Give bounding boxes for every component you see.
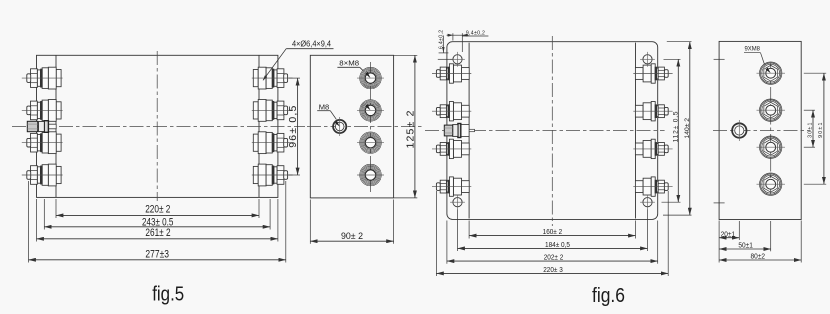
svg-text:8×M8: 8×M8 <box>339 59 359 68</box>
svg-text:4×Ø6,4×9,4: 4×Ø6,4×9,4 <box>292 39 331 48</box>
svg-text:50±1: 50±1 <box>738 241 753 250</box>
svg-text:90±1: 90±1 <box>818 123 824 138</box>
svg-text:220± 2: 220± 2 <box>145 204 170 216</box>
svg-text:30±1: 30±1 <box>807 123 813 138</box>
svg-text:277±3: 277±3 <box>145 248 169 260</box>
svg-text:202± 2: 202± 2 <box>544 253 564 262</box>
svg-text:M8: M8 <box>319 102 330 111</box>
svg-text:fig.6: fig.6 <box>592 285 625 307</box>
svg-text:fig.5: fig.5 <box>152 284 184 306</box>
svg-text:9XM8: 9XM8 <box>744 46 760 53</box>
svg-text:140± 2: 140± 2 <box>684 118 691 139</box>
svg-text:112± 0,5: 112± 0,5 <box>673 111 680 142</box>
svg-text:261± 2: 261± 2 <box>145 227 170 239</box>
svg-text:20±1: 20±1 <box>721 229 736 238</box>
svg-text:96± 0,5: 96± 0,5 <box>287 106 299 148</box>
svg-text:90± 2: 90± 2 <box>341 231 363 242</box>
svg-text:184± 0,5: 184± 0,5 <box>545 240 570 249</box>
svg-text:6,4±0,2: 6,4±0,2 <box>438 30 444 49</box>
svg-text:220± 3: 220± 3 <box>543 265 563 274</box>
svg-text:125± 2: 125± 2 <box>405 110 417 148</box>
svg-text:80±2: 80±2 <box>751 252 766 261</box>
svg-text:160± 2: 160± 2 <box>543 227 563 236</box>
svg-text:9,4±0,2: 9,4±0,2 <box>466 30 485 36</box>
